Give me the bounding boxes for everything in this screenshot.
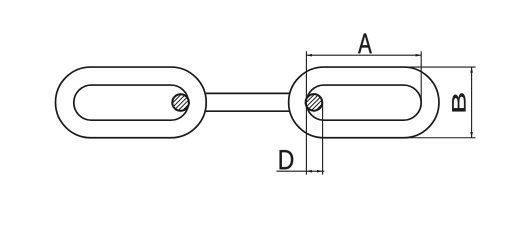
left link outer outline <box>56 67 207 138</box>
arrow B top <box>470 67 473 73</box>
right link outer outline <box>289 67 439 138</box>
middle link bottom wire <box>205 110 290 112</box>
arrow D right <box>317 170 323 173</box>
extension line B top <box>404 66 476 68</box>
arrow A right <box>416 54 422 57</box>
dimension line B <box>471 67 473 138</box>
right link wire cross-section circle <box>296 84 333 121</box>
arrow A left <box>306 54 312 57</box>
dimension line D <box>277 170 325 172</box>
label D <box>280 150 294 169</box>
middle link top wire <box>205 92 290 94</box>
extension line A right <box>420 51 422 101</box>
right link inner outline <box>306 85 421 120</box>
label B (rotated 90 CCW) <box>452 93 465 111</box>
arrow B bottom <box>470 132 473 138</box>
extension line D right <box>322 103 324 175</box>
extension line B bottom <box>404 137 476 139</box>
dimension line A <box>306 54 421 56</box>
left link wire cross-section circle <box>163 85 200 122</box>
extension line left (shared by A and D) <box>305 51 307 174</box>
arrow D left <box>306 170 312 173</box>
left link inner outline <box>74 85 189 120</box>
label A <box>358 34 372 54</box>
